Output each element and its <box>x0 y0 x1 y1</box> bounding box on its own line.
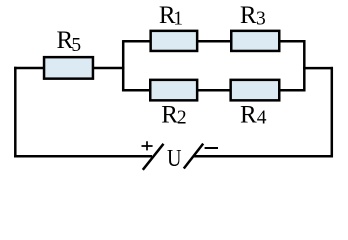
resistor R5 <box>44 57 93 79</box>
wire: top branch, R1 to R3 <box>198 40 232 43</box>
svg-text:R: R <box>240 2 257 29</box>
wire: bottom-left segment to battery slash <box>14 155 152 158</box>
wire: bottom branch, R2 to R4 <box>198 89 232 92</box>
svg-text:R: R <box>161 102 178 129</box>
polarity plus sign <box>142 141 153 150</box>
wire: right junction vertical bus <box>303 40 306 91</box>
wire: top branch, junction to R1 <box>123 40 151 43</box>
wire: bottom branch, R4 to right junction <box>280 89 306 92</box>
wire: right junction to right outer vertical <box>303 67 333 70</box>
wire: top branch, R3 to right junction <box>280 40 306 43</box>
battery break slash right <box>184 144 203 169</box>
svg-text:4: 4 <box>257 108 267 129</box>
wire: top-left horizontal from left corner to R5 <box>14 67 45 70</box>
wire: bottom branch, junction to R2 <box>123 89 151 92</box>
wire: left junction vertical bus <box>122 40 125 91</box>
svg-text:U: U <box>167 146 182 172</box>
resistor R3 <box>231 31 279 51</box>
battery break slash left <box>143 144 164 170</box>
wire: R5 to left junction <box>93 67 124 70</box>
svg-text:R: R <box>240 102 257 129</box>
resistor R4 <box>231 80 280 101</box>
wire: left outer vertical <box>14 67 17 158</box>
svg-text:5: 5 <box>71 35 81 56</box>
wire: bottom-right segment from battery slash to right corner <box>194 155 333 158</box>
polarity minus sign <box>205 147 218 149</box>
svg-text:2: 2 <box>177 108 187 129</box>
resistor R1 <box>151 31 198 51</box>
resistor R2 <box>150 80 197 101</box>
svg-text:3: 3 <box>256 9 266 30</box>
wire: right outer vertical <box>331 67 334 158</box>
svg-text:1: 1 <box>173 9 183 30</box>
